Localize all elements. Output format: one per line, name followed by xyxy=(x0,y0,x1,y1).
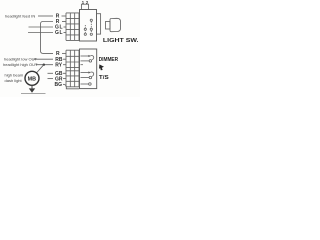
svg-text:GL: GL xyxy=(55,30,63,36)
connector C1 light switch grid xyxy=(66,13,79,41)
switch wiper B (light sw) xyxy=(90,19,92,35)
svg-text:MB: MB xyxy=(28,76,36,82)
wire pin RY to connector xyxy=(63,64,66,66)
svg-text:dash light: dash light xyxy=(5,78,23,83)
wire pin R to connector xyxy=(62,52,66,54)
svg-text:headlight high OUT: headlight high OUT xyxy=(3,62,38,67)
wire GB row xyxy=(48,72,54,74)
wire pin GB to connector xyxy=(63,72,66,74)
connector C2 dimmer grid xyxy=(66,50,79,87)
wire pin R1 to connector xyxy=(62,15,67,17)
bulb MB high beam indicator xyxy=(25,71,39,85)
knob xyxy=(110,18,121,31)
wire pin GL3 to connector xyxy=(64,26,67,28)
svg-text:BG: BG xyxy=(55,82,63,88)
svg-text:headlight feed IN: headlight feed IN xyxy=(5,14,35,19)
light switch body SW1 xyxy=(80,10,97,42)
knob stem xyxy=(106,22,111,30)
dimmer contact D2 xyxy=(81,71,94,78)
switch wiper A (light sw) xyxy=(84,25,86,35)
knob shaft holder xyxy=(97,14,101,34)
wire R2 drop to dimmer feed xyxy=(41,22,54,54)
svg-text:LIGHT SW.: LIGHT SW. xyxy=(103,38,139,44)
lever arrow icon xyxy=(99,64,104,70)
svg-text:high beam: high beam xyxy=(5,73,24,78)
svg-text:T/S: T/S xyxy=(99,75,109,81)
wire headlight feed IN to pin R1 xyxy=(38,15,53,17)
wire headlight high OUT xyxy=(36,64,54,66)
wire high beam indicator diagonal xyxy=(37,65,44,73)
wire GR row xyxy=(48,78,54,80)
wire GL3 xyxy=(29,26,54,28)
wire pin R2 to connector xyxy=(62,21,66,23)
wire pin RB to connector xyxy=(63,58,66,60)
terminal tab pins 1 2 xyxy=(82,4,89,9)
junction dot high beam tap xyxy=(43,63,45,65)
wire GL4 xyxy=(28,32,53,34)
svg-text:DIMMER: DIMMER xyxy=(99,57,118,63)
dimmer / turn signal switch body SW2 xyxy=(80,49,97,89)
svg-text:RY: RY xyxy=(55,62,62,68)
wire BG drop to chassis run xyxy=(63,84,79,89)
svg-text:headlight low OUT: headlight low OUT xyxy=(4,57,37,62)
dimmer contact D1 xyxy=(81,55,94,65)
contact T3 xyxy=(81,83,92,86)
wire pin GL4 to connector xyxy=(64,32,67,34)
ground symbol xyxy=(31,85,33,89)
wire pin GR to connector xyxy=(63,78,66,80)
wire headlight low OUT xyxy=(34,58,54,60)
